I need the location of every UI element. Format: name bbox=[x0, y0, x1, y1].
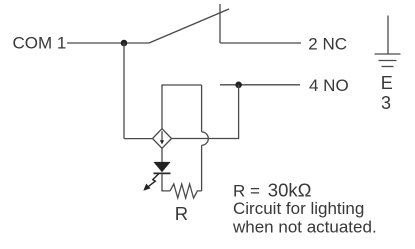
ground E3 bbox=[375, 16, 401, 114]
resistor R bbox=[170, 184, 202, 198]
LED D1 bbox=[143, 162, 170, 191]
current source U1 (diamond) bbox=[153, 129, 172, 149]
switch S1 arm bbox=[149, 9, 229, 43]
wire COM1 horizontal bbox=[67, 42, 149, 44]
wire 2NC vertical contact bbox=[219, 4, 221, 43]
svg-text:4 NO: 4 NO bbox=[309, 76, 349, 95]
wire right edge lower bbox=[201, 145, 203, 191]
wire 4NO horizontal bbox=[220, 84, 300, 86]
wire right edge upper bbox=[201, 85, 203, 132]
svg-text:when not actuated.: when not actuated. bbox=[232, 218, 377, 237]
svg-text:2 NC: 2 NC bbox=[308, 34, 347, 53]
wire diamond bottom to LED bbox=[161, 148, 163, 162]
svg-text:COM 1: COM 1 bbox=[13, 34, 67, 53]
svg-text:3: 3 bbox=[381, 93, 391, 113]
wire 2NC horizontal bbox=[220, 42, 301, 44]
svg-text:Circuit for lighting: Circuit for lighting bbox=[233, 199, 364, 218]
junction COM1 bbox=[121, 40, 128, 47]
wire COM1 vertical bbox=[123, 43, 125, 139]
wire to current source left bbox=[124, 138, 153, 140]
svg-text:E: E bbox=[381, 73, 393, 93]
svg-text:R = 30kΩ: R = 30kΩ bbox=[233, 179, 312, 200]
wire diamond top to rect top to right edge bbox=[162, 85, 202, 129]
wire diamond right to 4NO vertical bbox=[172, 85, 239, 139]
wire hop over node bbox=[202, 132, 209, 145]
wire LED cathode to resistor bbox=[162, 174, 170, 191]
svg-text:R: R bbox=[175, 203, 188, 224]
junction 4NO bbox=[235, 82, 242, 89]
